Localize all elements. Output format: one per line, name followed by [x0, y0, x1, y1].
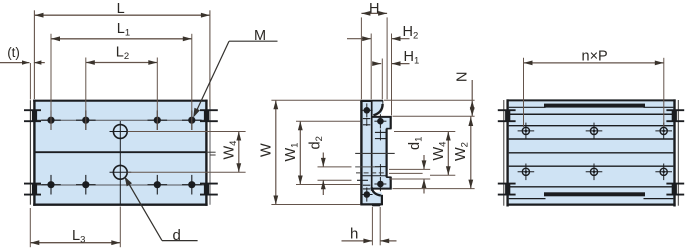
right view: right edge tab tick y=121.2: [666, 120, 684, 122]
section: right lip top fill: [386, 118, 391, 129]
dimension W2 bottom extension: [393, 188, 475, 190]
left view: right edge tab blob top: [204, 110, 209, 121]
dimension L3 right extension: [119, 207, 121, 248]
section: top flange right edge: [381, 100, 383, 107]
section: right column bottom edge: [373, 188, 392, 190]
right view: bottom edge: [507, 203, 676, 205]
right view: internal line y=166.2: [509, 165, 674, 167]
dimension h line and arrows: [342, 240, 373, 242]
dimension L1 line: [51, 38, 192, 40]
right view: right edge tab tick y=194.6: [666, 194, 684, 196]
dimension L3 line: [30, 242, 120, 244]
section: right lip top edge: [371, 116, 392, 118]
section: right lip bottom fill: [386, 177, 391, 188]
section: hidden dash at 180.3: [357, 179, 368, 181]
svg-text:n×P: n×P: [582, 49, 608, 65]
dimension W line: [275, 100, 277, 204]
section: hidden thread dashes below upper-right dot: [375, 131, 386, 133]
right view: outer rail edge left: [503, 100, 505, 206]
section: internal parting line: [371, 102, 373, 191]
dimension d1 bottom extension: [389, 178, 430, 180]
section: center hole d upper edge line: [355, 166, 379, 168]
dimension h extensions: [371, 207, 373, 245]
right view: right edge tab blob top: [672, 110, 677, 121]
dimension H2 line and arrows: [347, 38, 371, 40]
svg-text:M: M: [254, 28, 266, 44]
svg-text:H: H: [369, 1, 379, 17]
section: screw head dot upper-left: [364, 107, 371, 114]
dimension (t) left extension: [29, 63, 31, 100]
dimension L line: [35, 14, 210, 16]
section: parting S-curve bottom: [372, 190, 382, 204]
left view: screw hole M r1c3: [154, 117, 161, 124]
section: top edge: [360, 100, 383, 102]
right view: left edge tab tick y=183.6: [498, 183, 516, 185]
right view: internal line y=139.0: [509, 138, 674, 140]
dimension d1 lines and arrows: [423, 155, 425, 169]
right view: right edge: [673, 99, 675, 206]
section: top flange fill: [362, 101, 382, 114]
right view: right edge tab tick y=110.2: [666, 109, 684, 111]
section: left column fill: [362, 101, 371, 204]
left view: left edge tab tick y=183.6: [24, 183, 41, 185]
svg-text:(t): (t): [7, 45, 20, 60]
right view: mounting hole at (663.7,171.8): [660, 168, 667, 175]
right view: mounting hole at (594.0,130.9): [590, 127, 597, 134]
section: center hole d dash-dot line: [356, 172, 386, 174]
right view: internal line y=125.7: [509, 125, 674, 127]
right view: left edge tab blob bottom: [505, 184, 510, 195]
dimension H line: [361, 12, 387, 14]
section: bottom edge: [360, 203, 381, 205]
dimension W1 top extension: [296, 120, 361, 122]
svg-text:N: N: [455, 72, 471, 82]
right view: top groove edge line right segment: [644, 106, 674, 108]
right view: left edge tab tick y=194.6: [498, 194, 516, 196]
dimension W1 line: [299, 121, 301, 184]
section: screw head dot lower-left: [364, 191, 371, 198]
left view: center hole d (upper) circle: [113, 125, 127, 139]
dimension d2 top extension: [318, 166, 352, 168]
dimension H2/H1 right extension: [391, 34, 393, 116]
left view: extension line from upper hole d to W4 dim: [128, 131, 246, 133]
section: bottom flange fill: [362, 192, 382, 204]
left view: left edge tab tick y=194.6: [24, 194, 41, 196]
right view: internal line y=152.8: [509, 152, 674, 154]
left view: center hole d (lower) circle: [113, 165, 127, 179]
left view: lower rail edge visible at right: [209, 100, 211, 205]
svg-text:W1: W1: [283, 143, 301, 162]
right view: internal line y=186.8: [509, 186, 674, 188]
left view: right edge tab tick y=183.6: [200, 183, 218, 185]
dimension W4 top extension: [394, 131, 455, 133]
right view: outer rail edge right: [677, 100, 679, 206]
left view: plate right edge: [205, 100, 207, 206]
svg-text:d2: d2: [308, 136, 326, 149]
dimension W top extension: [271, 99, 361, 101]
left view: vertical centerline through holes d: [119, 121, 121, 206]
dimension nxP line: [524, 62, 664, 64]
section: right lip top outer edge: [390, 116, 392, 129]
right view: left edge tab tick y=110.2: [498, 109, 516, 111]
svg-text:W4: W4: [431, 142, 449, 161]
section: right column fill: [373, 118, 386, 189]
section: center hole d lower edge line: [362, 175, 386, 177]
right view: left edge tab tick y=121.2: [498, 120, 516, 122]
dimension L2 extension to hole c2: [85, 58, 87, 131]
dimension d2 bottom extension: [318, 179, 352, 181]
dimension (t) arrows: [0, 62, 30, 64]
svg-text:W2: W2: [453, 142, 471, 161]
dimension H2 left extension: [370, 34, 372, 100]
section: left edge: [360, 100, 362, 205]
svg-text:d: d: [173, 227, 181, 244]
right view: left edge: [506, 99, 508, 206]
left view: left edge tab blob bottom: [32, 184, 37, 195]
dimension H right extension: [386, 17, 388, 99]
section: parting S-curve top: [372, 102, 383, 116]
section: right lip top step: [386, 128, 391, 130]
right view: left edge tab blob top: [505, 110, 510, 121]
left view: left edge tab tick y=121.2: [24, 120, 41, 122]
right view: mounting hole at (525.9,130.9): [522, 127, 529, 134]
section: hidden thread dashes above lower-right dot: [375, 166, 386, 168]
section: right lip bottom step: [386, 176, 391, 178]
dimension nxP left extension: [523, 58, 525, 127]
svg-text:H2: H2: [403, 24, 419, 42]
left view: left edge tab blob top: [32, 110, 37, 121]
dimension d1 top extension: [389, 168, 430, 170]
right view: right edge tab tick y=183.6: [666, 183, 684, 185]
left view: screw hole M r1c4: [188, 117, 195, 124]
section: screw head dot upper-right: [377, 118, 384, 125]
dimension L2 extension to hole c3: [156, 58, 158, 131]
dimension N bottom extension: [393, 115, 475, 117]
dimension L1 extension to hole c4: [191, 34, 193, 130]
section: horizontal center line: [355, 152, 395, 154]
dimension nxP right extension: [663, 58, 665, 127]
dimension N line: [471, 80, 473, 116]
right view: inner rail plate fill: [509, 101, 674, 204]
section: right lip bottom outer edge: [390, 177, 392, 190]
svg-text:W4: W4: [222, 141, 240, 160]
left view: plate left edge: [33, 100, 35, 206]
left view: right edge tab tick y=121.2: [200, 120, 218, 122]
right view: mounting hole at (594.0,171.8): [590, 168, 597, 175]
dimension W4 line: [447, 132, 449, 176]
left view: plate top edge: [33, 100, 207, 102]
svg-text:L3: L3: [72, 228, 85, 246]
left view: screw hole M r2c1: [47, 181, 54, 188]
dimension H left extension: [360, 17, 362, 99]
left view: extension line from lower hole d to W4 dim: [128, 171, 246, 173]
svg-text:d1: d1: [407, 137, 425, 150]
right view: top groove edge line left segment: [509, 106, 546, 108]
dimension L right extension: [209, 10, 211, 106]
dimension W4 bottom extension: [430, 174, 455, 176]
dimension W2 line: [470, 116, 472, 188]
dimension W1 bottom extension: [296, 184, 361, 186]
leader d to center hole: [125, 177, 162, 240]
left view: mid parting line extension right: [206, 151, 215, 153]
dimension N top extension: [384, 99, 475, 101]
right view: internal line y=114.2: [509, 113, 674, 115]
left view: right edge tab tick y=110.2: [200, 109, 218, 111]
svg-text:H1: H1: [404, 49, 420, 67]
dimension L1 extension to hole c1: [50, 34, 52, 130]
right view: bottom groove band: [544, 192, 645, 196]
svg-text:L1: L1: [117, 21, 130, 39]
right view: bottom groove edge line left segment: [509, 198, 546, 200]
dimension L2 line: [86, 62, 158, 64]
svg-text:L: L: [117, 1, 125, 17]
leader M to screw hole: [229, 40, 278, 42]
dimension W bottom extension: [271, 204, 360, 206]
left view: screw hole M r2c3: [154, 181, 161, 188]
right view: mounting hole at (663.7,130.9): [660, 127, 667, 134]
dimension L3 left extension: [29, 208, 31, 247]
right view: top edge: [507, 99, 676, 101]
left view: screw hole M r1c1: [47, 117, 54, 124]
left view: top screw-row line: [34, 119, 206, 121]
section: hidden thread dashes below upper-left dot: [363, 118, 370, 120]
left view: left edge tab tick y=110.2: [24, 109, 41, 111]
section: bottom foot tab: [372, 203, 380, 206]
left view: short dash right of edge: [210, 154, 216, 156]
left view: screw hole M r1c2: [82, 117, 89, 124]
section: screw head dot lower-right: [377, 181, 384, 188]
left view: mid parting line: [34, 151, 206, 153]
right view: mounting hole at (525.9,171.8): [522, 168, 529, 175]
dimension W4 (left view) line: [238, 132, 240, 173]
left view: outer rail top-view plate fill: [35, 101, 206, 204]
svg-text:L2: L2: [116, 45, 129, 63]
left view: plate bottom edge: [33, 204, 207, 206]
section: hidden thread dashes above lower-left dot: [363, 184, 370, 186]
left view: right edge tab blob bottom: [204, 184, 209, 195]
svg-text:W: W: [259, 143, 275, 157]
right view: top groove band: [544, 104, 645, 108]
dimension L left extension: [33, 10, 35, 99]
dimension H1 line and arrows: [375, 63, 382, 65]
left view: bottom screw-row line: [34, 184, 206, 186]
dimension d1 middle extension: [389, 172, 423, 174]
dimension H1 left extension: [381, 59, 383, 100]
left view: screw hole M r2c4: [188, 181, 195, 188]
svg-text:h: h: [350, 226, 358, 243]
dimension d2 lines and arrows: [322, 153, 324, 167]
left view: right edge tab tick y=194.6: [200, 194, 218, 196]
section: right column right edge: [386, 129, 388, 178]
right view: right edge tab blob bottom: [672, 184, 677, 195]
left view: screw hole M r2c2: [82, 181, 89, 188]
left view: lower rail edge visible at left: [29, 100, 31, 205]
section: bottom flange right edge: [381, 195, 383, 206]
right view: bottom groove edge line right segment: [644, 198, 674, 200]
